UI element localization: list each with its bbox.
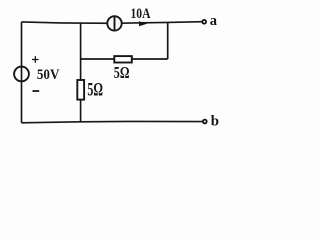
- svg-text:5Ω: 5Ω: [87, 81, 103, 101]
- svg-text:50V: 50V: [37, 66, 60, 83]
- svg-text:b: b: [211, 113, 219, 129]
- svg-text:10A: 10A: [131, 6, 151, 22]
- svg-text:a: a: [210, 13, 218, 29]
- svg-text:5Ω: 5Ω: [114, 63, 130, 82]
